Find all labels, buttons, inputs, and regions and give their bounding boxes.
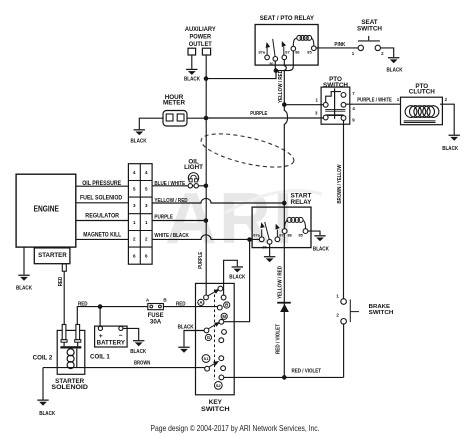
svg-text:−: − xyxy=(119,333,123,340)
svg-text:BLACK: BLACK xyxy=(442,146,458,152)
svg-text:30A: 30A xyxy=(150,318,162,325)
svg-text:S1: S1 xyxy=(204,356,210,361)
svg-text:ENGINE: ENGINE xyxy=(34,205,59,214)
svg-text:FUEL SOLENIOD: FUEL SOLENIOD xyxy=(80,195,123,202)
svg-text:PURPLE: PURPLE xyxy=(154,215,173,221)
svg-text:87a: 87a xyxy=(259,50,266,55)
svg-text:SEAT / PTO RELAY: SEAT / PTO RELAY xyxy=(260,15,315,22)
svg-text:PINK: PINK xyxy=(334,42,345,48)
svg-text:BLUE / WHITE: BLUE / WHITE xyxy=(154,181,185,187)
svg-text:KEY: KEY xyxy=(209,399,223,406)
svg-text:OUTLET: OUTLET xyxy=(189,41,212,48)
svg-text:RELAY: RELAY xyxy=(291,199,313,206)
svg-text:S2: S2 xyxy=(216,383,222,388)
svg-text:BLACK: BLACK xyxy=(313,247,329,253)
svg-text:BLACK: BLACK xyxy=(131,138,147,144)
svg-text:RED: RED xyxy=(176,302,186,308)
svg-text:PURPLE / WHITE: PURPLE / WHITE xyxy=(357,97,392,103)
svg-text:REGULATOR: REGULATOR xyxy=(85,212,119,219)
svg-text:BATTERY: BATTERY xyxy=(97,340,126,347)
svg-text:COIL 1: COIL 1 xyxy=(90,354,110,361)
svg-text:AUXILIARY: AUXILIARY xyxy=(185,26,217,33)
svg-text:YELLOW / RED: YELLOW / RED xyxy=(278,70,284,103)
svg-text:SWITCH: SWITCH xyxy=(369,310,394,316)
svg-text:COIL 2: COIL 2 xyxy=(33,355,53,362)
svg-text:M: M xyxy=(222,314,226,319)
svg-text:SOLENOID: SOLENOID xyxy=(51,384,88,391)
svg-text:POWER: POWER xyxy=(190,33,212,40)
svg-text:METER: METER xyxy=(163,99,185,106)
svg-text:WHITE / BLACK: WHITE / BLACK xyxy=(154,233,189,239)
svg-text:G: G xyxy=(207,335,211,340)
svg-text:87: 87 xyxy=(285,49,289,54)
svg-text:+: + xyxy=(99,333,103,340)
svg-text:87: 87 xyxy=(279,232,283,237)
svg-text:Page design © 2004-2017 by ARI: Page design © 2004-2017 by ARI Network S… xyxy=(151,423,320,433)
svg-text:MAGNETO KILL: MAGNETO KILL xyxy=(83,231,121,238)
svg-text:87a: 87a xyxy=(253,232,260,237)
svg-text:B: B xyxy=(225,303,228,308)
svg-text:RED / VIOLET: RED / VIOLET xyxy=(276,323,282,354)
svg-text:CLUTCH: CLUTCH xyxy=(409,89,435,96)
svg-text:30: 30 xyxy=(269,61,273,66)
svg-text:BLACK: BLACK xyxy=(178,324,194,330)
svg-text:SWITCH: SWITCH xyxy=(357,25,382,32)
svg-text:BLACK: BLACK xyxy=(16,285,32,291)
svg-text:STARTER: STARTER xyxy=(38,252,67,259)
svg-text:BROWN: BROWN xyxy=(134,360,151,366)
svg-text:SWITCH: SWITCH xyxy=(323,82,348,89)
svg-text:RED: RED xyxy=(58,276,64,286)
svg-text:LIGHT: LIGHT xyxy=(184,164,203,171)
svg-text:BROWN / YELLOW: BROWN / YELLOW xyxy=(337,164,343,203)
svg-text:YELLOW / RED: YELLOW / RED xyxy=(154,198,187,204)
svg-text:BLACK: BLACK xyxy=(184,77,200,83)
svg-text:PURPLE: PURPLE xyxy=(250,111,267,117)
svg-text:BLACK: BLACK xyxy=(130,349,146,355)
svg-text:SWITCH: SWITCH xyxy=(201,406,230,413)
svg-text:BLACK: BLACK xyxy=(39,411,55,417)
svg-text:30: 30 xyxy=(262,244,266,249)
svg-text:BLACK: BLACK xyxy=(229,275,245,281)
svg-text:PURPLE: PURPLE xyxy=(198,251,204,268)
svg-text:OIL PRESSURE: OIL PRESSURE xyxy=(82,180,121,187)
svg-text:YELLOW / RED: YELLOW / RED xyxy=(277,266,283,299)
svg-text:BLACK: BLACK xyxy=(387,67,403,73)
svg-text:RED: RED xyxy=(78,301,88,307)
svg-text:RED / VIOLET: RED / VIOLET xyxy=(292,369,322,375)
